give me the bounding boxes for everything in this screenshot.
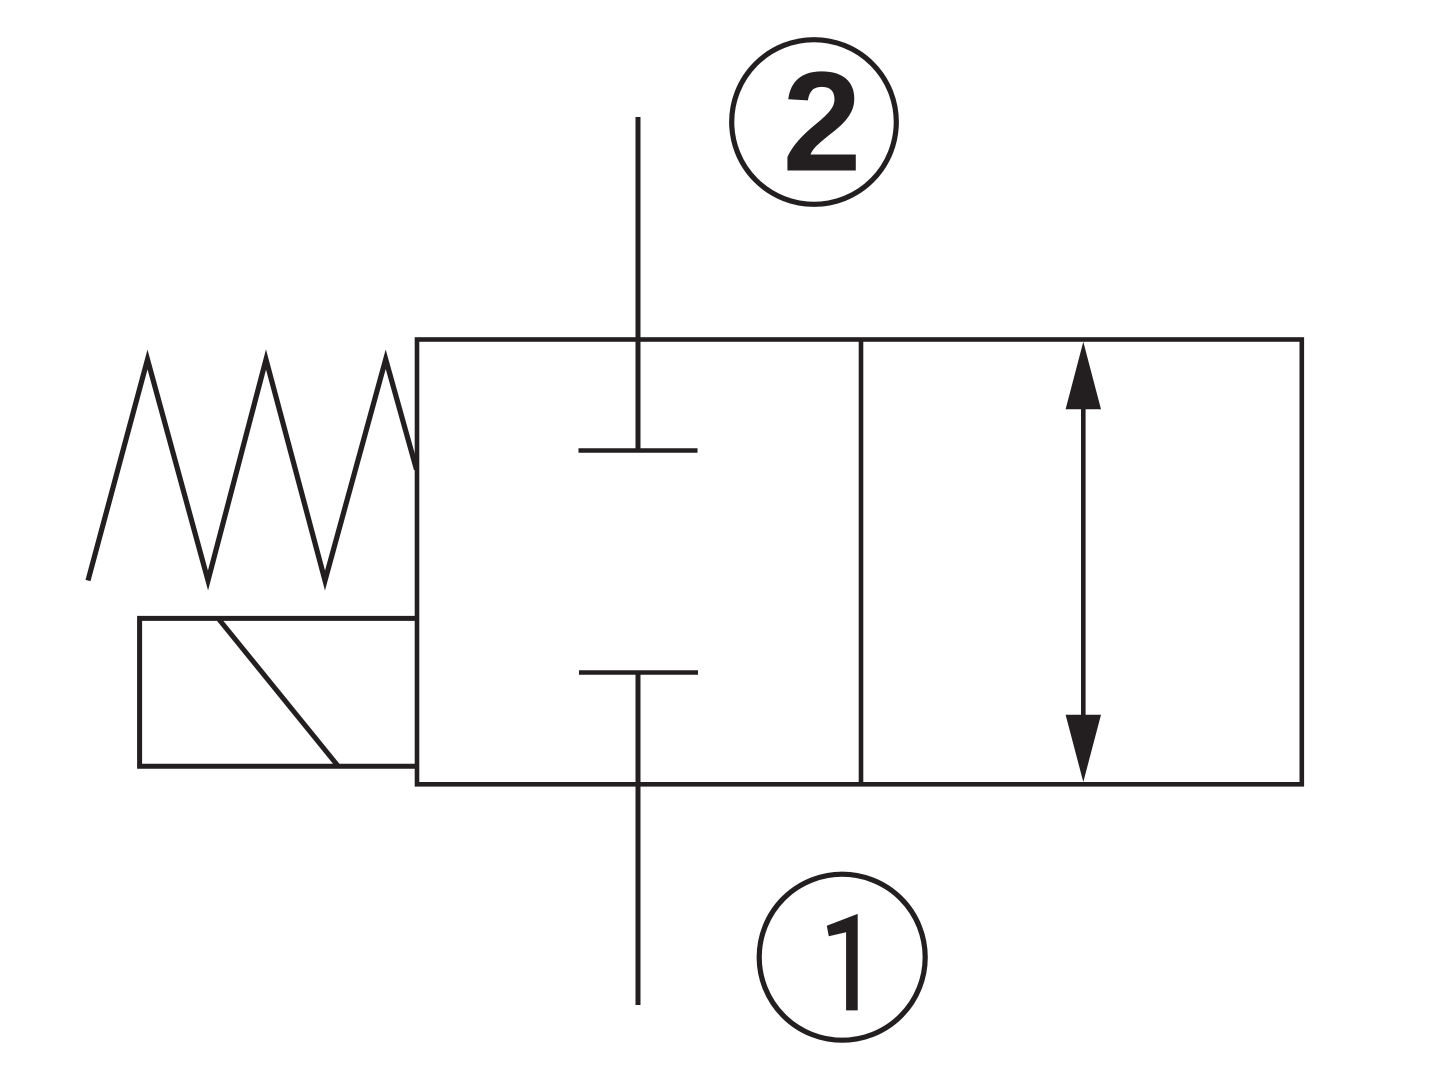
svg-text:2: 2 (783, 43, 862, 202)
port 1 label text (827, 914, 858, 1011)
port 1 label circle (759, 874, 925, 1040)
valve body envelope (left position box + right position box outline) (417, 340, 1302, 785)
flow arrow head down (1066, 715, 1101, 782)
flow arrow head up (1066, 342, 1101, 410)
solenoid diagonal (219, 619, 338, 765)
port 2 seat bar (blocked port) (579, 448, 698, 453)
solenoid coil box (140, 618, 417, 766)
port 1 seat bar (blocked port) (579, 670, 698, 675)
port 1 line (636, 673, 641, 1006)
port 2 line (636, 117, 641, 451)
port 2 label circle (732, 40, 897, 205)
spring (88, 359, 417, 580)
position divider line (859, 340, 864, 785)
flow arrow shaft (1081, 404, 1086, 720)
